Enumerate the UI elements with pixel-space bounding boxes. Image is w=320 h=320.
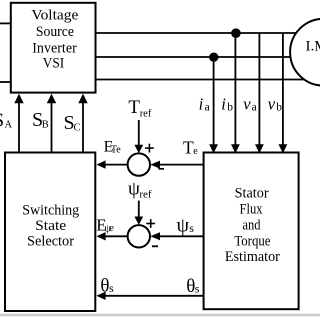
svg-text:Flux: Flux: [240, 202, 263, 218]
svg-text:s: s: [109, 281, 114, 295]
svg-text:Selector: Selector: [27, 233, 74, 249]
svg-text:State: State: [35, 218, 66, 234]
svg-text:Voltage: Voltage: [31, 8, 78, 24]
svg-text:s: s: [195, 281, 200, 295]
svg-text:Estimator: Estimator: [225, 249, 280, 265]
svg-text:e: e: [109, 223, 114, 234]
svg-text:b: b: [276, 102, 282, 114]
svg-text:Te: Te: [111, 145, 121, 156]
svg-text:C: C: [74, 123, 81, 134]
svg-text:v: v: [268, 94, 276, 113]
svg-text:e: e: [193, 146, 198, 157]
svg-text:T: T: [128, 97, 140, 118]
svg-text:Torque: Torque: [234, 233, 270, 249]
svg-text:A: A: [5, 120, 13, 131]
svg-text:ψ: ψ: [128, 178, 140, 199]
svg-text:and: and: [243, 217, 261, 233]
svg-text:ref: ref: [139, 188, 152, 200]
svg-text:S: S: [0, 110, 4, 132]
svg-text:a: a: [205, 102, 210, 114]
svg-text:Stator: Stator: [235, 186, 269, 202]
svg-text:I.M: I.M: [306, 39, 320, 55]
svg-text:VSI: VSI: [43, 56, 65, 72]
svg-text:ψ: ψ: [177, 214, 190, 236]
svg-text:Source: Source: [36, 24, 74, 40]
svg-text:Switching: Switching: [22, 203, 79, 219]
svg-text:ref: ref: [140, 108, 152, 119]
svg-text:s: s: [189, 221, 194, 235]
svg-text:B: B: [42, 120, 49, 131]
svg-text:i: i: [221, 94, 226, 113]
svg-text:v: v: [243, 94, 251, 113]
svg-text:Inverter: Inverter: [32, 41, 77, 57]
svg-text:a: a: [252, 102, 257, 114]
svg-text:b: b: [227, 102, 233, 114]
svg-text:i: i: [199, 94, 204, 113]
